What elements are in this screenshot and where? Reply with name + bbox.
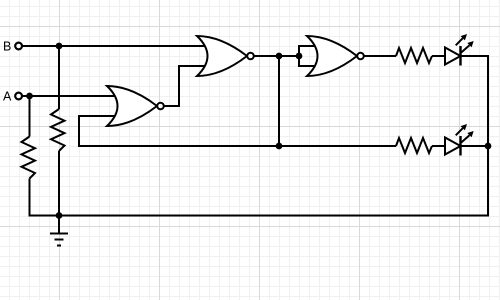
wire R1 bottom lead <box>29 179 31 217</box>
wire U3 lower input stub <box>298 65 316 67</box>
nor gate U2 <box>197 36 254 76</box>
wire feedback horizontal run <box>78 145 396 147</box>
wire R3 to LED D1 <box>432 55 445 57</box>
resistor R1 <box>22 137 36 179</box>
terminal B <box>15 43 22 50</box>
wire bottom ground rail <box>29 215 490 217</box>
wire A input to gate U1 <box>22 95 116 97</box>
wire U2 output to U3 input <box>254 55 299 57</box>
junction U2 output net at drop <box>276 53 283 60</box>
junction A net <box>26 93 33 100</box>
LED D2 <box>445 124 474 156</box>
svg-text:A: A <box>3 89 12 103</box>
wire R4 to LED D2 <box>432 145 445 147</box>
resistor R3 <box>396 48 432 63</box>
wire B input to gate U2 <box>22 45 208 47</box>
wire LED D2 to right rail <box>461 145 490 147</box>
junction feedback at drop <box>276 143 283 150</box>
nor gate U3 (inverter) <box>307 36 364 76</box>
wire drop from U2 output net down to feedback <box>278 56 280 146</box>
wire feedback stub to gate U1 lower input <box>78 115 116 117</box>
wire R2 bottom to ground rail <box>58 151 60 216</box>
wire riser to gate U2 lower input <box>178 65 208 67</box>
ground <box>50 216 68 246</box>
junction right rail at D2 <box>485 143 492 150</box>
junction B net <box>56 43 63 50</box>
terminal A <box>15 93 22 100</box>
wire riser up to U2 lower input <box>178 66 180 106</box>
resistor R4 <box>396 138 432 153</box>
wire U3 upper input stub <box>298 45 316 47</box>
wire B junction riser down to R2 <box>58 46 60 109</box>
svg-text:B: B <box>3 39 11 53</box>
wire right rail <box>487 56 489 217</box>
wire U3 output to R3 <box>364 55 396 57</box>
wire A junction riser down to R1 <box>29 96 31 137</box>
wire U1 output to riser <box>164 105 180 107</box>
nor gate U1 <box>107 86 164 126</box>
LED D1 <box>445 34 474 66</box>
wire U3 input tie bracket vertical <box>298 46 300 66</box>
resistor R2 <box>51 109 65 151</box>
wire feedback riser <box>78 116 80 146</box>
junction ground <box>56 212 63 219</box>
wire LED D1 to right rail <box>461 55 490 57</box>
junction U3 input tie <box>296 53 303 60</box>
